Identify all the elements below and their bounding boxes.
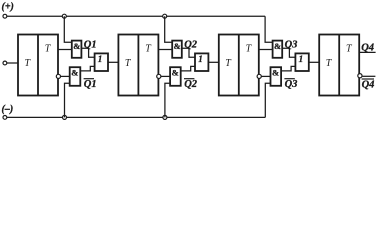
svg-text:Q2: Q2: [184, 79, 198, 90]
wire (-) rail to AND1b input: [65, 83, 70, 117]
AND gate DD1.2 bottom: [70, 67, 81, 86]
svg-text:&: &: [172, 68, 179, 78]
svg-text:T: T: [246, 43, 253, 54]
junction on (-) rail at stage 1: [63, 115, 67, 119]
svg-text:T: T: [346, 43, 353, 54]
junction on (+) rail at stage 2: [163, 14, 167, 18]
inversion bubble T2 inverse output: [157, 74, 161, 78]
wire AND3b output to OR3 bottom input: [281, 66, 295, 71]
svg-text:T: T: [125, 58, 132, 69]
wire count input to T1: [7, 62, 18, 64]
flip-flop T1 input label T: [25, 58, 32, 69]
wire AND2a output to OR2 top input: [182, 48, 195, 57]
flip-flop T3 input label T: [225, 58, 232, 69]
AND gate DD3.2 bottom: [271, 67, 282, 86]
wire OR3 output to T4 input: [309, 61, 319, 63]
wire (-) rail to AND3b input: [265, 83, 270, 117]
AND gate DD2.1 top: [172, 41, 182, 58]
svg-text:1: 1: [98, 54, 103, 64]
wire AND1a output to OR1 top input: [81, 48, 94, 57]
svg-text:(+): (+): [2, 1, 14, 12]
OR gate DD3.3 label 1: [299, 54, 304, 64]
junction on (+) rail at stage 1: [62, 14, 66, 18]
count input terminal: [3, 61, 7, 65]
wire T4 inverse output Q4bar: [362, 75, 375, 77]
svg-text:1: 1: [198, 54, 203, 64]
wire T1 inverse output to AND1b input: [61, 75, 70, 77]
svg-text:Q1: Q1: [84, 40, 97, 51]
wire AND1b output to OR1 bottom input: [80, 66, 94, 71]
OR gate DD1.3 label 1: [98, 54, 103, 64]
wire OR2 output to T3 input: [208, 61, 218, 63]
svg-text:&: &: [274, 41, 281, 51]
AND gate DD2.1 label &amp;: [174, 41, 181, 51]
flip-flop T1 type label T: [45, 43, 52, 54]
flip-flop T4 type label T: [346, 43, 353, 54]
svg-text:Q4: Q4: [361, 42, 374, 53]
AND gate DD1.1 label &amp;: [73, 41, 80, 51]
flip-flop T2 type label T: [145, 43, 152, 54]
flip-flop T4 input label T: [326, 58, 333, 69]
label Q&#773;1: [84, 79, 97, 90]
inversion bubble T3 inverse output: [257, 74, 261, 78]
wire T2 Q output to AND2a input: [158, 49, 172, 51]
flip-flop T3 type label T: [246, 43, 253, 54]
svg-text:Q3: Q3: [285, 40, 298, 51]
wire AND2b output to OR2 bottom input: [181, 66, 195, 71]
flip-flop T4 input section divider: [338, 35, 340, 96]
OR gate DD2.3: [195, 53, 208, 71]
flip-flop T2 input section divider: [137, 35, 139, 96]
net (+) top rail wire: [7, 15, 265, 17]
svg-text:Q3: Q3: [285, 79, 298, 90]
label Q&#773;2 overline: [184, 78, 194, 80]
svg-text:Q1: Q1: [84, 79, 97, 90]
svg-text:Q2: Q2: [184, 40, 198, 51]
flip-flop T3 input section divider: [238, 35, 240, 96]
power terminal (+): [2, 1, 14, 18]
wire OR1 output to T2 input: [108, 61, 118, 63]
junction on (-) rail at stage 2: [163, 115, 167, 119]
svg-text:&: &: [272, 68, 279, 78]
svg-text:T: T: [326, 58, 333, 69]
svg-text:T: T: [25, 58, 32, 69]
AND gate DD3.1 top: [273, 41, 283, 58]
svg-text:T: T: [225, 58, 232, 69]
label Q&#773;3: [285, 79, 298, 90]
wire (+) rail to AND1a input: [64, 16, 72, 42]
OR gate DD2.3 label 1: [198, 54, 203, 64]
wire T4 Q output Q4: [359, 51, 375, 53]
flip-flop T1 body: [18, 35, 58, 96]
svg-text:&: &: [71, 68, 78, 78]
svg-text:T: T: [145, 43, 152, 54]
label Q&#773;4 overline: [362, 78, 374, 80]
OR gate DD3.3: [295, 53, 308, 71]
label Q4: [361, 42, 374, 53]
wire AND3a output to OR3 top input: [282, 48, 295, 57]
svg-text:1: 1: [299, 54, 304, 64]
OR gate DD1.3: [95, 53, 108, 71]
wire T1 Q output to AND1a input: [58, 49, 72, 51]
AND gate DD1.1 top: [72, 41, 82, 58]
wire (+) rail to AND3a input: [265, 16, 273, 42]
wire (+) rail to AND2a input: [165, 16, 173, 42]
flip-flop T1 input section divider: [37, 35, 39, 96]
AND gate DD2.2 bottom: [170, 67, 181, 86]
label Q&#773;1 overline: [84, 78, 94, 80]
wire (-) rail to AND2b input: [165, 83, 170, 117]
wire T3 Q output to AND3a input: [259, 49, 273, 51]
label Q&#773;3 overline: [284, 78, 294, 80]
AND gate DD3.1 label &amp;: [274, 41, 281, 51]
AND gate DD1.2 label &amp;: [71, 68, 78, 78]
label Q&#773;2: [184, 79, 198, 90]
wire T3 inverse output to AND3b input: [261, 75, 270, 77]
AND gate DD3.2 label &amp;: [272, 68, 279, 78]
label Q2: [184, 40, 198, 51]
wire T2 inverse output to AND2b input: [161, 75, 170, 77]
AND gate DD2.2 label &amp;: [172, 68, 179, 78]
power terminal (-): [2, 104, 14, 119]
svg-text:T: T: [45, 43, 52, 54]
svg-text:&: &: [73, 41, 80, 51]
flip-flop T3 body: [219, 35, 259, 96]
svg-text:Q4: Q4: [362, 80, 375, 91]
svg-text:(–): (–): [2, 104, 14, 115]
inversion bubble T1 inverse output: [56, 74, 60, 78]
flip-flop T4 body: [319, 35, 359, 96]
flip-flop T2 input label T: [125, 58, 132, 69]
label Q1: [84, 40, 97, 51]
flip-flop T2 body: [118, 35, 158, 96]
net (-) bottom rail wire: [7, 116, 266, 118]
label Q3: [285, 40, 298, 51]
inversion bubble T4 inverse output: [358, 74, 362, 78]
svg-text:&: &: [174, 41, 181, 51]
label Q&#773;4: [362, 80, 375, 91]
